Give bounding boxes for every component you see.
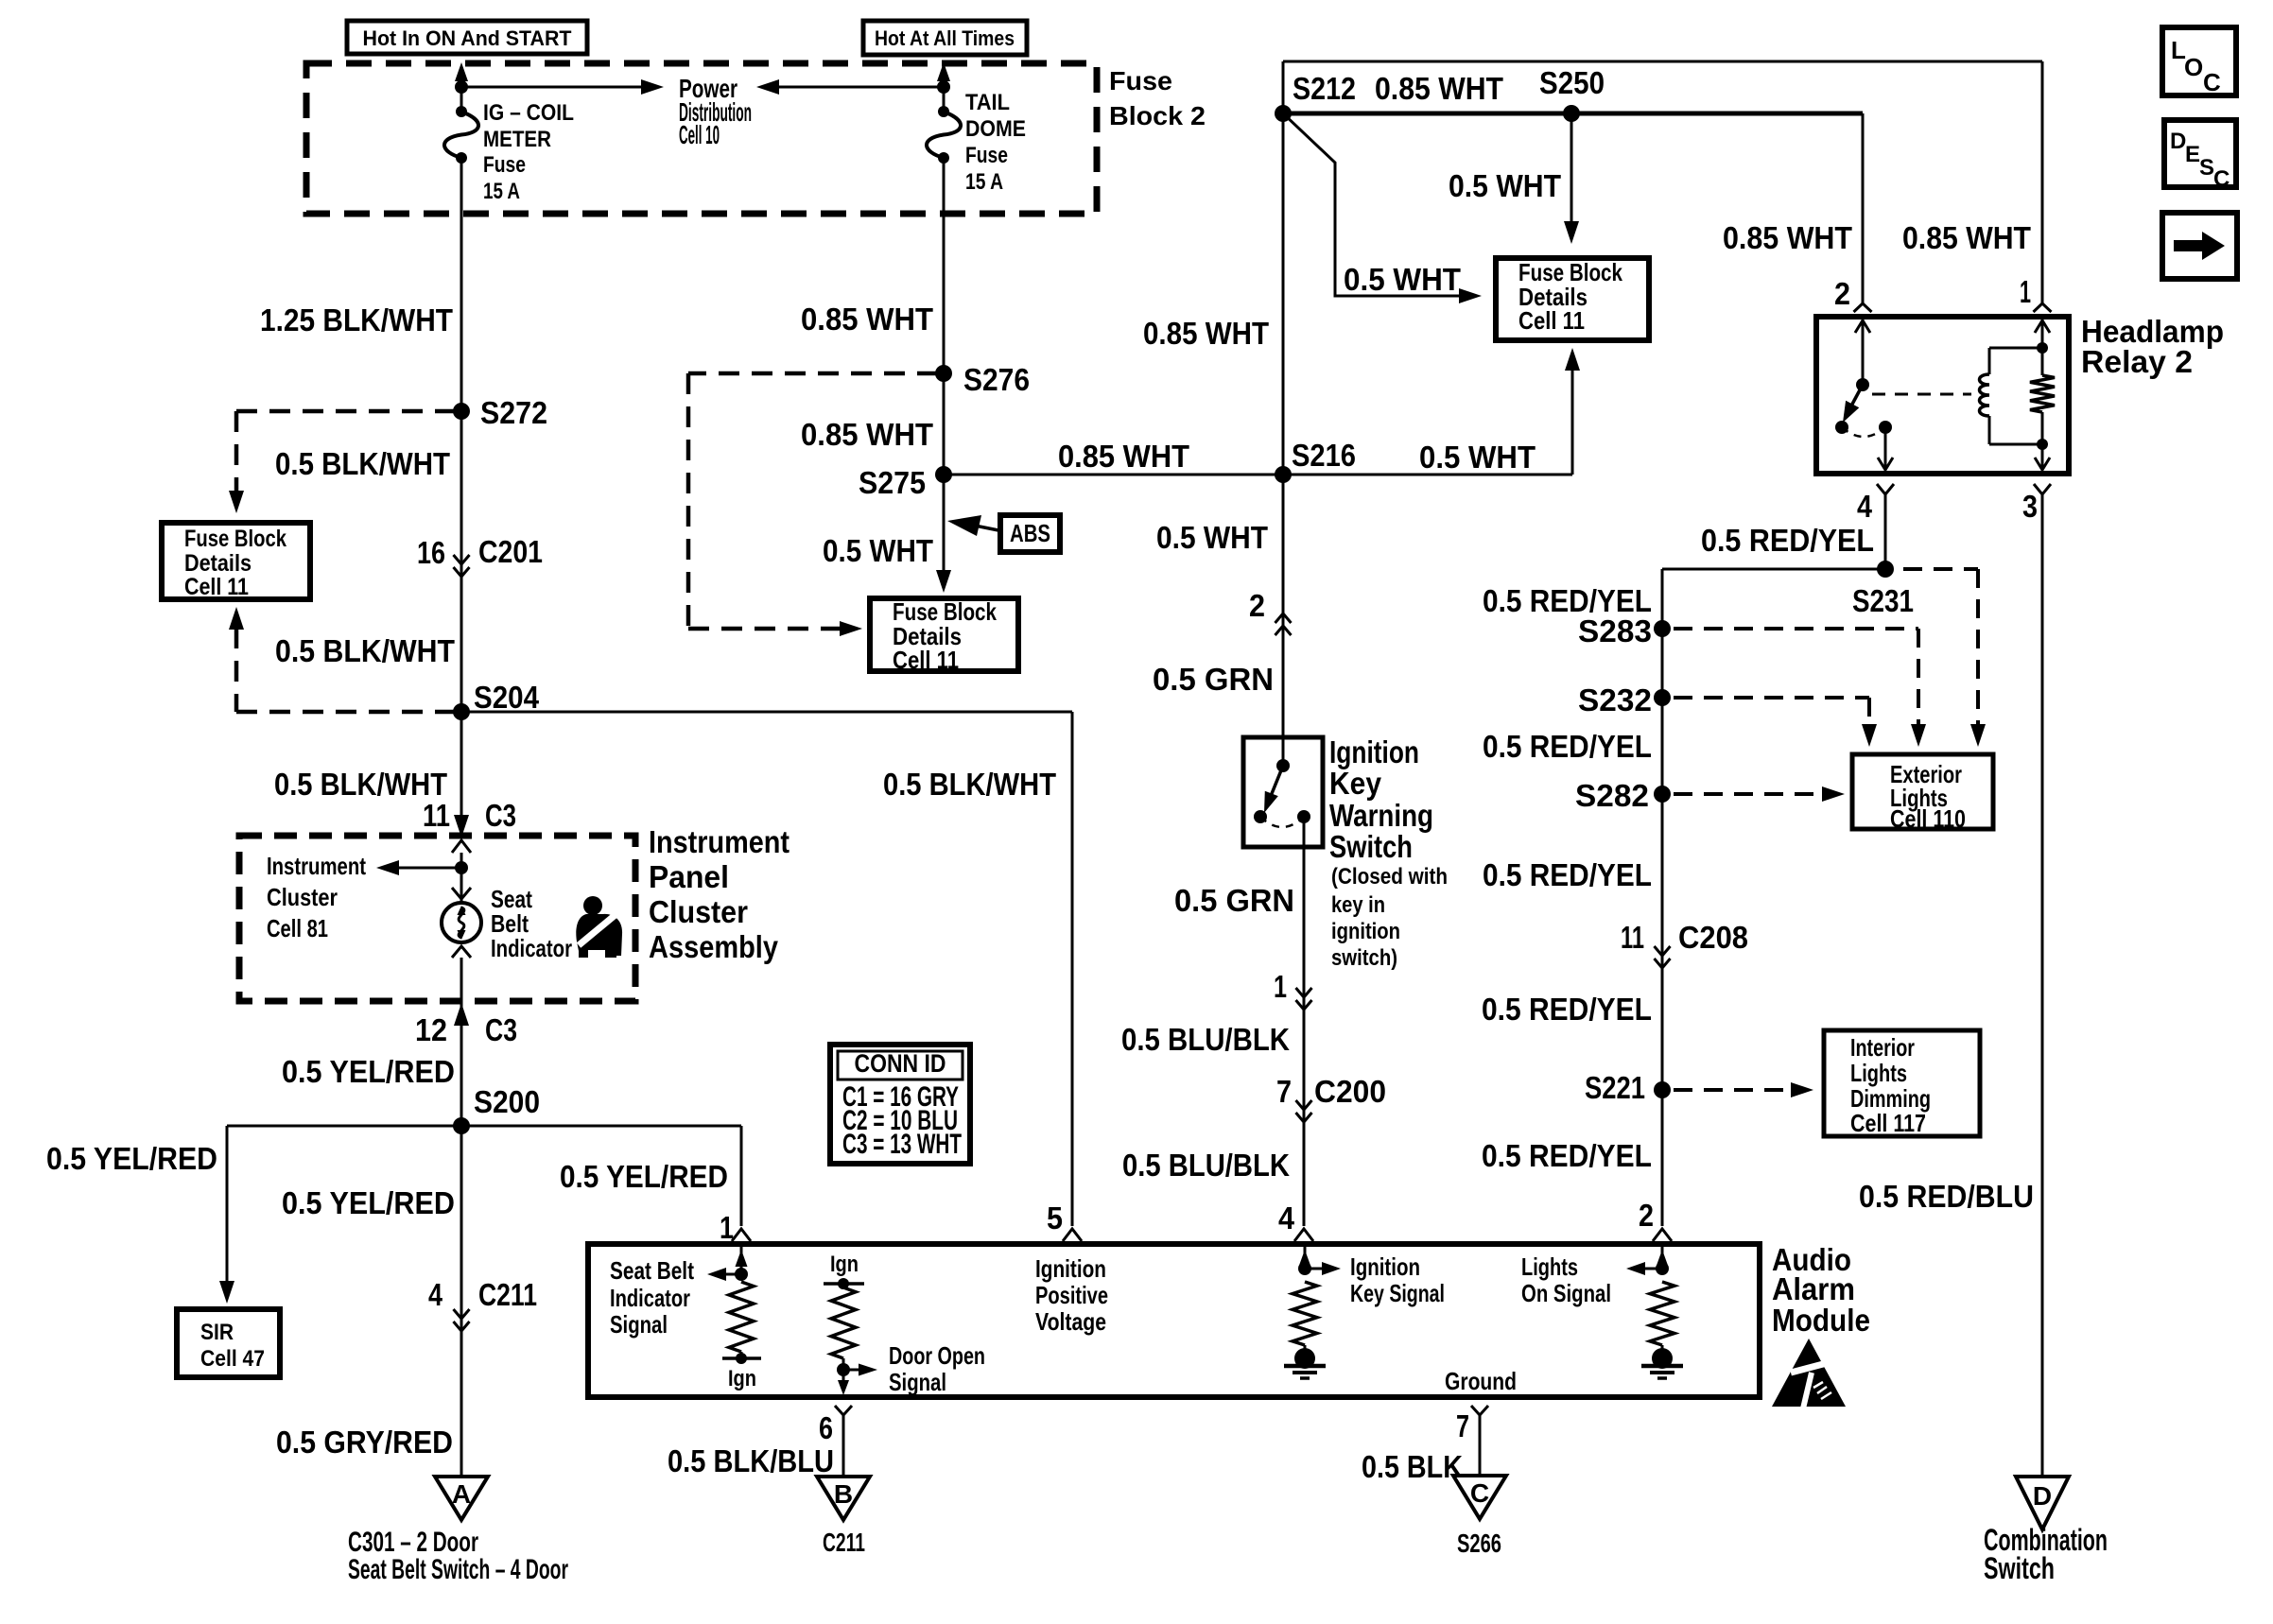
svg-text:Lights: Lights: [1521, 1253, 1578, 1281]
svg-text:15 A: 15 A: [965, 169, 1003, 195]
wire S275 to S216: [944, 474, 1283, 476]
svg-text:On Signal: On Signal: [1521, 1279, 1611, 1307]
svg-text:S216: S216: [1292, 438, 1356, 473]
triangle connector D: [2016, 1477, 2069, 1529]
splice S250: [1563, 105, 1580, 122]
svg-text:Cell 81: Cell 81: [267, 914, 328, 942]
splice S221: [1654, 1081, 1671, 1098]
svg-text:Alarm: Alarm: [1772, 1271, 1855, 1306]
SIR box: [177, 1309, 280, 1377]
svg-text:Panel: Panel: [649, 859, 729, 894]
fuse IG-COIL METER: [456, 106, 467, 117]
svg-text:Block 2: Block 2: [1109, 101, 1206, 130]
svg-text:C: C: [1470, 1478, 1489, 1508]
wire relay pin 4 to S231: [1884, 494, 1887, 569]
svg-text:C3: C3: [485, 798, 516, 833]
dashed S283 to exterior lights: [1674, 627, 1918, 631]
svg-text:C211: C211: [823, 1528, 865, 1557]
svg-text:0.5 BLK/WHT: 0.5 BLK/WHT: [883, 767, 1056, 802]
svg-text:5: 5: [1047, 1201, 1063, 1235]
svg-text:Ground: Ground: [1445, 1367, 1517, 1395]
relay pin 4 fork: [1877, 484, 1894, 494]
svg-text:ABS: ABS: [1010, 519, 1050, 547]
svg-text:2: 2: [1639, 1198, 1654, 1233]
svg-text:0.5 GRN: 0.5 GRN: [1153, 662, 1274, 697]
svg-text:0.5 BLK/BLU: 0.5 BLK/BLU: [668, 1443, 834, 1478]
dashed S231 to exterior lights: [1903, 567, 1978, 571]
svg-text:Cell 47: Cell 47: [200, 1346, 265, 1372]
svg-text:Ignition: Ignition: [1329, 734, 1419, 769]
svg-text:Ign: Ign: [728, 1366, 756, 1391]
svg-text:C200: C200: [1314, 1074, 1386, 1109]
dashed S282 to exterior lights: [1674, 792, 1831, 796]
splice S216: [1275, 466, 1292, 483]
wire to Power Distribution: [461, 86, 647, 89]
svg-text:S276: S276: [963, 362, 1030, 397]
svg-text:Cell 117: Cell 117: [1850, 1109, 1926, 1137]
dashed wire S272 to fuse block details: [236, 409, 456, 414]
svg-text:Ign: Ign: [830, 1252, 859, 1277]
svg-text:0.85 WHT: 0.85 WHT: [1723, 220, 1852, 255]
svg-text:S232: S232: [1578, 682, 1652, 717]
svg-text:0.5 WHT: 0.5 WHT: [823, 533, 933, 568]
svg-text:S282: S282: [1575, 778, 1649, 813]
dashed S221 to interior lights dimming: [1674, 1088, 1800, 1092]
svg-text:SIR: SIR: [200, 1320, 234, 1345]
wire A top with up arrow: [460, 70, 463, 87]
svg-text:4: 4: [1278, 1201, 1295, 1235]
svg-text:Seat Belt: Seat Belt: [610, 1256, 694, 1285]
svg-text:D: D: [2170, 129, 2186, 154]
connector C3 pin 12: [460, 1001, 463, 1126]
wire S212 down to ignition switch: [1282, 113, 1285, 737]
node B top junction: [937, 80, 950, 94]
svg-text:0.85 WHT: 0.85 WHT: [1375, 71, 1503, 106]
splice S282: [1654, 786, 1671, 803]
svg-text:S200: S200: [474, 1084, 540, 1119]
dashed S232 to exterior lights: [1674, 696, 1869, 700]
svg-text:Cluster: Cluster: [267, 883, 338, 911]
svg-text:2: 2: [1249, 588, 1265, 623]
wire inside cluster: [460, 853, 463, 904]
svg-text:Voltage: Voltage: [1035, 1307, 1106, 1336]
svg-text:Cluster: Cluster: [649, 894, 748, 929]
svg-text:DOME: DOME: [965, 116, 1026, 142]
svg-text:Key Signal: Key Signal: [1350, 1279, 1445, 1307]
relay coil: [1980, 374, 1990, 416]
interior lights dimming box: [1824, 1030, 1980, 1136]
svg-text:S250: S250: [1539, 65, 1605, 100]
relay switch right contact: [1879, 421, 1892, 434]
svg-text:A: A: [452, 1479, 471, 1509]
svg-text:16: 16: [417, 535, 445, 570]
wire A into fuse: [460, 87, 463, 112]
svg-text:Fuse: Fuse: [1109, 66, 1172, 95]
svg-text:Interior: Interior: [1850, 1033, 1915, 1062]
wire S212 diagonal to fuse block details: [1283, 113, 1468, 296]
svg-text:0.85 WHT: 0.85 WHT: [801, 417, 933, 452]
svg-text:12: 12: [415, 1012, 447, 1047]
fuse block 2 dashed outline: [306, 63, 1097, 214]
svg-text:Key: Key: [1329, 766, 1382, 801]
wire S231 to S column: [1662, 568, 1885, 571]
wire relay pin 3 to triangle D: [2041, 494, 2044, 1477]
module ignition key input: [1304, 1244, 1307, 1269]
relay switch wire: [1862, 320, 1865, 385]
ignition switch dashed arc: [1260, 817, 1304, 827]
ESD warning symbol: [1772, 1339, 1846, 1407]
svg-text:Assembly: Assembly: [649, 929, 779, 964]
svg-text:S204: S204: [474, 680, 540, 715]
wire indicator to cluster bottom: [460, 958, 463, 1001]
svg-text:0.5 WHT: 0.5 WHT: [1419, 440, 1536, 475]
module door open to pin 6: [842, 1358, 845, 1390]
splice S272: [453, 403, 470, 420]
svg-text:Lights: Lights: [1850, 1059, 1907, 1087]
svg-text:11: 11: [1621, 920, 1644, 955]
svg-text:Cell 110: Cell 110: [1890, 804, 1966, 833]
svg-text:0.5 RED/BLU: 0.5 RED/BLU: [1859, 1179, 2034, 1214]
module resistor R door open: [831, 1287, 856, 1358]
title box Hot At All Times: [863, 21, 1027, 55]
relay pin 3 fork: [2034, 484, 2051, 494]
wire module pin 7 to triangle C: [1471, 1406, 1488, 1415]
ignition switch left contact: [1254, 810, 1267, 823]
svg-text:7: 7: [1456, 1408, 1469, 1443]
svg-text:TAIL: TAIL: [965, 90, 1010, 115]
wire S200 down to triangle A: [460, 1126, 463, 1477]
svg-text:Fuse: Fuse: [965, 143, 1008, 168]
wire module pin 6 to triangle B: [835, 1406, 852, 1415]
splice S276: [935, 365, 952, 382]
node cluster junction: [455, 861, 468, 874]
wire S200 to SIR: [227, 1125, 461, 1128]
svg-text:0.5 BLK/WHT: 0.5 BLK/WHT: [274, 767, 447, 802]
svg-text:(Closed with: (Closed with: [1331, 864, 1448, 890]
module seat belt indicator input: [740, 1244, 743, 1274]
svg-text:Fuse: Fuse: [483, 152, 526, 178]
svg-text:S275: S275: [859, 465, 926, 500]
wire B fuse down to arrow: [943, 158, 946, 585]
seat belt indicator lamp: [442, 903, 481, 942]
svg-text:Switch: Switch: [1984, 1551, 2055, 1585]
legend DESC box: [2164, 120, 2236, 187]
svg-text:S221: S221: [1585, 1070, 1645, 1105]
svg-text:Fuse Block: Fuse Block: [184, 526, 286, 552]
svg-text:CONN ID: CONN ID: [855, 1049, 946, 1078]
svg-text:0.5 RED/YEL: 0.5 RED/YEL: [1483, 729, 1652, 764]
module door open node: [837, 1363, 850, 1376]
splice S204: [453, 703, 470, 720]
svg-text:0.5 BLK: 0.5 BLK: [1362, 1449, 1463, 1484]
svg-text:C211: C211: [478, 1277, 537, 1312]
svg-text:O: O: [2184, 53, 2203, 81]
svg-text:1.25 BLK/WHT: 1.25 BLK/WHT: [260, 302, 453, 337]
wire to Power Distribution left arrow: [773, 86, 944, 89]
svg-text:S231: S231: [1852, 583, 1914, 618]
headlamp relay 2 box: [1816, 317, 2069, 474]
svg-text:0.85 WHT: 0.85 WHT: [801, 302, 933, 337]
CONN ID table: [830, 1045, 970, 1164]
svg-text:S266: S266: [1457, 1529, 1501, 1558]
module lights on input: [1661, 1244, 1664, 1269]
triangle connector C: [1453, 1476, 1506, 1519]
svg-text:IG – COIL: IG – COIL: [483, 100, 574, 126]
svg-text:1: 1: [1274, 969, 1287, 1004]
wire B top with up arrow: [943, 70, 946, 87]
svg-text:Cell 11: Cell 11: [184, 574, 249, 600]
svg-text:0.5 GRN: 0.5 GRN: [1174, 883, 1294, 918]
module ground ignition key: [1294, 1348, 1315, 1369]
svg-text:Ignition: Ignition: [1035, 1254, 1106, 1283]
dashed wire S276 loop to fuse block details: [688, 371, 938, 376]
svg-text:C201: C201: [478, 534, 543, 569]
svg-text:0.5 GRY/RED: 0.5 GRY/RED: [276, 1425, 453, 1460]
ignition switch right contact: [1297, 810, 1310, 823]
connector chevron above indicator: [452, 888, 471, 899]
fuse block details box left: [162, 523, 310, 599]
wire S250 down arrow: [1570, 113, 1573, 236]
svg-text:Switch: Switch: [1329, 829, 1413, 864]
svg-text:METER: METER: [483, 127, 551, 152]
svg-text:0.5 BLU/BLK: 0.5 BLU/BLK: [1122, 1148, 1290, 1183]
svg-text:E: E: [2185, 142, 2200, 167]
svg-text:Signal: Signal: [889, 1368, 946, 1396]
wire B into fuse: [943, 87, 946, 112]
svg-text:1: 1: [2020, 274, 2031, 309]
relay switch dashed arc: [1842, 427, 1885, 437]
relay coil dashed link: [1872, 393, 1971, 396]
svg-text:Module: Module: [1772, 1303, 1870, 1338]
wire S200 to module pin 1: [461, 1125, 741, 1128]
splice S212: [1275, 105, 1292, 122]
svg-text:0.5 BLK/WHT: 0.5 BLK/WHT: [275, 633, 455, 668]
wire ignition switch to module pin 4: [1303, 817, 1306, 1226]
svg-text:Indicator: Indicator: [610, 1284, 690, 1312]
svg-text:C3 = 13 WHT: C3 = 13 WHT: [842, 1129, 962, 1160]
svg-text:Door Open: Door Open: [889, 1341, 985, 1370]
svg-text:3: 3: [2022, 489, 2038, 524]
node A top junction: [455, 80, 468, 94]
splice S275: [935, 466, 952, 483]
ignition key warning switch box: [1243, 737, 1323, 847]
wire S204 to module pin 5: [461, 711, 1072, 714]
splice S200: [453, 1117, 470, 1134]
module Ign tap seat belt: [722, 1356, 761, 1360]
svg-text:0.5 WHT: 0.5 WHT: [1449, 168, 1561, 203]
svg-text:4: 4: [1857, 489, 1873, 524]
svg-text:0.5 BLU/BLK: 0.5 BLU/BLK: [1121, 1022, 1290, 1057]
dashed wire fuse block details to S204: [229, 607, 244, 630]
svg-text:15 A: 15 A: [483, 179, 520, 204]
fuse block details box top: [1496, 258, 1649, 340]
svg-text:0.5 RED/YEL: 0.5 RED/YEL: [1482, 1138, 1652, 1173]
thick wire S212 to S250 to relay pin 2: [1283, 112, 1863, 116]
module resistor R seat belt: [729, 1282, 754, 1352]
triangle connector A: [435, 1477, 488, 1520]
svg-text:switch): switch): [1331, 945, 1397, 971]
svg-text:0.85 WHT: 0.85 WHT: [1143, 316, 1269, 351]
svg-text:0.85 WHT: 0.85 WHT: [1058, 439, 1189, 474]
svg-text:Instrument: Instrument: [649, 824, 789, 859]
module resistor R lights on: [1650, 1282, 1674, 1345]
wire S212 up and across top: [1282, 61, 1285, 113]
svg-text:0.5 YEL/RED: 0.5 YEL/RED: [560, 1159, 728, 1194]
svg-text:Cell 10: Cell 10: [679, 120, 720, 149]
triangle connector B: [817, 1477, 870, 1520]
relay switch left contact: [1835, 421, 1848, 434]
svg-text:Signal: Signal: [610, 1310, 668, 1339]
svg-text:Cell 11: Cell 11: [1518, 306, 1585, 335]
module resistor R ignition key: [1293, 1282, 1317, 1345]
legend arrow box: [2162, 213, 2237, 279]
wire A fuse to S272 to S204 to cluster: [460, 158, 463, 831]
splice S231: [1877, 561, 1894, 578]
title box Hot In ON And START: [347, 21, 587, 54]
svg-text:Hot In ON And START: Hot In ON And START: [363, 26, 573, 50]
svg-text:Cell 11: Cell 11: [893, 646, 959, 674]
svg-text:S: S: [2199, 155, 2214, 181]
wire to Instrument Cluster Cell 81: [391, 867, 461, 870]
exterior lights box: [1852, 754, 1993, 829]
svg-text:0.5 YEL/RED: 0.5 YEL/RED: [282, 1054, 455, 1089]
svg-text:0.5 YEL/RED: 0.5 YEL/RED: [282, 1185, 455, 1220]
svg-text:S283: S283: [1578, 613, 1652, 648]
relay resistor: [2041, 320, 2044, 375]
svg-text:Instrument: Instrument: [267, 852, 366, 880]
module ground lights on: [1652, 1348, 1673, 1369]
svg-text:0.5 RED/YEL: 0.5 RED/YEL: [1483, 857, 1652, 892]
svg-text:Details: Details: [184, 550, 252, 577]
svg-text:ignition: ignition: [1331, 919, 1400, 944]
svg-text:Seat Belt Switch – 4 Door: Seat Belt Switch – 4 Door: [348, 1554, 568, 1585]
svg-text:Positive: Positive: [1035, 1281, 1108, 1309]
ignition switch contact from top: [1282, 737, 1285, 766]
svg-text:D: D: [2033, 1481, 2052, 1511]
svg-text:0.5 WHT: 0.5 WHT: [1156, 520, 1268, 555]
svg-text:C: C: [2213, 166, 2230, 192]
svg-text:Hot At All Times: Hot At All Times: [875, 26, 1015, 50]
svg-text:6: 6: [819, 1410, 833, 1445]
svg-text:C3: C3: [485, 1012, 517, 1047]
relay switch output arrow: [1884, 427, 1887, 470]
splice S232: [1654, 689, 1671, 706]
fuse block details box center: [870, 598, 1018, 671]
svg-text:11: 11: [423, 798, 450, 833]
svg-text:0.5 RED/YEL: 0.5 RED/YEL: [1701, 523, 1874, 558]
instrument panel cluster dashed box: [239, 836, 635, 1001]
ABS callout box: [961, 523, 998, 530]
legend LOC box: [2162, 27, 2236, 95]
svg-text:0.5 YEL/RED: 0.5 YEL/RED: [46, 1141, 217, 1176]
svg-text:key in: key in: [1331, 892, 1385, 918]
svg-text:7: 7: [1276, 1074, 1292, 1109]
svg-text:B: B: [834, 1479, 853, 1509]
svg-text:0.5 WHT: 0.5 WHT: [1344, 262, 1461, 297]
svg-text:0.5 RED/YEL: 0.5 RED/YEL: [1482, 992, 1652, 1027]
seat belt person icon: [576, 896, 622, 958]
svg-text:2: 2: [1834, 276, 1850, 311]
fuse TAIL DOME: [938, 106, 949, 117]
wire S216 right and up to fuse block details top: [1283, 474, 1572, 476]
ignition switch arm: [1269, 766, 1283, 801]
svg-text:4: 4: [428, 1277, 443, 1312]
splice S283: [1654, 620, 1671, 637]
svg-text:C208: C208: [1678, 920, 1748, 955]
svg-text:Relay 2: Relay 2: [2081, 344, 2193, 379]
svg-text:S212: S212: [1293, 71, 1356, 106]
relay switch arm: [1848, 385, 1863, 411]
svg-text:0.85 WHT: 0.85 WHT: [1902, 220, 2031, 255]
cluster pin fork: [452, 840, 471, 853]
svg-text:Warning: Warning: [1329, 798, 1433, 833]
svg-text:C: C: [2203, 68, 2221, 96]
connector chevron below indicator: [452, 946, 471, 958]
svg-text:Indicator: Indicator: [491, 934, 572, 962]
svg-text:S272: S272: [480, 395, 547, 430]
svg-text:0.5 BLK/WHT: 0.5 BLK/WHT: [275, 446, 450, 481]
svg-text:Ignition: Ignition: [1350, 1253, 1420, 1281]
audio alarm module box: [588, 1244, 1760, 1397]
